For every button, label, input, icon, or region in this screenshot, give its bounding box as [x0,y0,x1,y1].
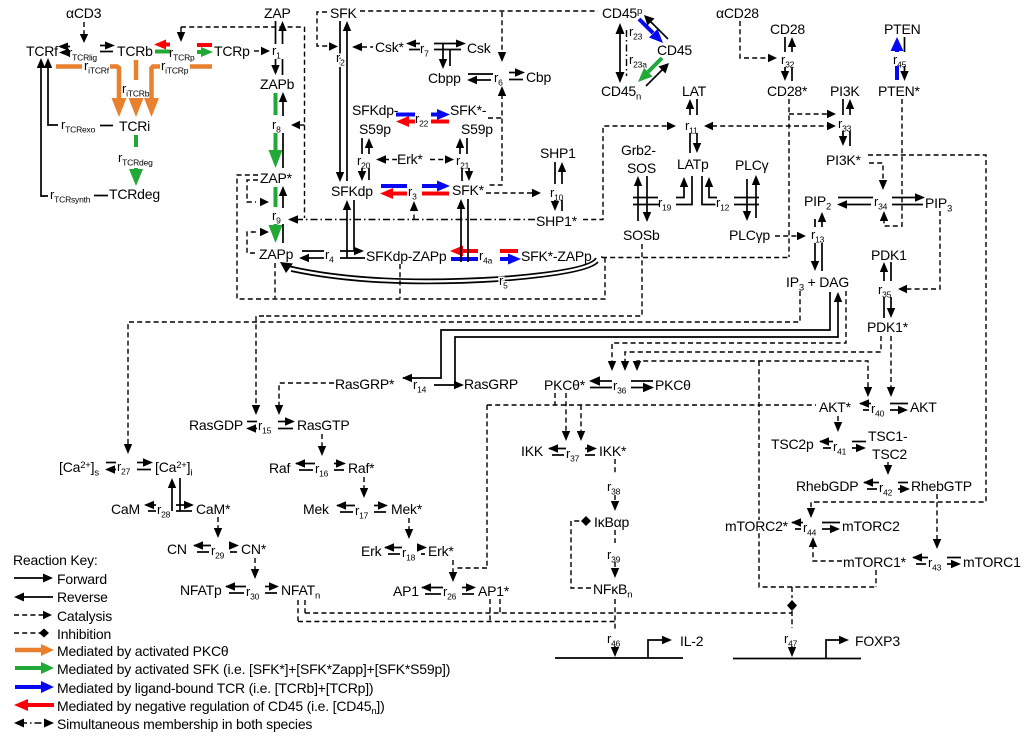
FOXP3 transcription arrow [826,640,841,658]
blue arrow r3 right [422,184,437,188]
wire r29-CN* [230,545,231,547]
wire r21-SFK* pair [461,168,463,181]
legend inhibition arrow [14,632,44,634]
wire r19 horizontals [633,197,658,199]
svg-text:RasGTP: RasGTP [297,417,349,433]
wire r2 pair SFK-SFKdp [339,21,341,174]
wire r17-Mek* [374,505,380,507]
wire SFK* down pair [460,206,462,262]
svg-text:SFK*: SFK* [452,182,485,198]
wire mTORC1 bus branch down to mTORC1* loop [759,361,876,587]
wire mTORC1*-r43 [913,557,928,559]
red arrow r22 left [407,120,415,124]
orange riTCRp elbow down arrow [152,67,161,101]
wire r35-PDK1* pair [883,297,885,318]
svg-text:Simultaneous membership in bot: Simultaneous membership in both species [57,716,312,732]
svg-text:SHP1*: SHP1* [536,213,578,229]
wire r13-IP3DAG pair [814,243,816,263]
wire PDK1-r35 pair [883,269,885,281]
wire rTCRsynth to TCRdeg [94,195,108,197]
wire r1-ZAPb pair [275,59,277,68]
wire mTORC2*-r44 [792,522,803,524]
IL-2 transcription arrow [648,640,664,658]
svg-text:ZAP: ZAP [264,5,291,21]
wire PKCtheta* stub to bus [554,393,556,405]
blue arrow CD45p to CD45 [639,19,653,33]
svg-text:Mek*: Mek* [391,501,423,517]
wire SHP1* bus left to r9 [296,219,535,221]
orange riTCRf line left [56,64,82,69]
wire IP3 to Ca release line [128,291,800,446]
svg-text:CD28*: CD28* [767,83,808,99]
wire r6-Cbp [509,72,518,74]
svg-text:RhebGDP: RhebGDP [796,478,858,494]
wire TCRf-rTCRlig reverse [62,46,70,48]
green arrow CD45 to CD45n [648,58,662,72]
svg-text:Raf*: Raf* [348,460,375,476]
wire PKCtheta* join into r26 line [455,567,487,569]
wire SHP1* to r11 elbow [583,126,667,220]
wire PIP2-r13 pair [814,219,816,227]
legend catalysis arrow [14,614,44,616]
r5 arc pair [288,258,596,279]
svg-text:mTORC2: mTORC2 [842,518,900,534]
wire SFK self bracket [317,12,330,46]
wire arrow down into r44 from PI3K line [811,502,819,510]
wire r45-PTEN* arrow [904,66,906,74]
svg-text:PDK1: PDK1 [871,247,907,263]
wire RasGRP* catalysis to r15 [279,383,334,407]
wire r9-ZAPp black line [282,224,284,243]
orange riTCRp line right [190,64,212,69]
wire Erk* to r21 catalysis [430,159,446,161]
red line r22 right [431,120,449,124]
wire arrow down into rTCRp [180,27,182,34]
wire PKCtheta*/AKT* bus [487,404,816,406]
wire NFkBn inhibition loop to IkBap [571,521,591,588]
svg-text:Raf: Raf [269,460,290,476]
wire r39 arrow to NFkBn [614,562,616,570]
svg-text:SFK: SFK [330,5,357,21]
wire PTEN-r45 right line [904,37,906,52]
svg-text:PDK1*: PDK1* [867,319,909,335]
orange riTCRb arrow to TCRi [134,99,139,101]
green r8 arrow to ZAP* [274,133,278,152]
svg-text:TCRp: TCRp [214,43,250,59]
wire AP1-r26 [422,587,443,589]
wire r11-LATp pair [689,133,691,153]
svg-text:SFKdp: SFKdp [331,183,373,199]
wire top horizontal to rTCRp [181,26,305,28]
svg-text:CN: CN [167,541,187,557]
wire TCRsynth elbow [41,192,48,196]
svg-text:SFKdp-: SFKdp- [352,102,399,118]
svg-text:FOXP3: FOXP3 [855,633,900,649]
svg-text:PKCθ: PKCθ [655,377,691,393]
wire PI3K* right long line to r44 [819,155,986,502]
svg-text:AKT: AKT [910,399,937,415]
svg-text:PI3K: PI3K [830,83,860,99]
wire PIP3 to r35 catalysis [906,211,940,289]
wire Csk*-r7 reverse [414,43,420,45]
svg-text:TCRb: TCRb [117,43,153,59]
legend dashdot double arrow simultaneous [20,722,48,724]
wire r36-PKCtheta lines [631,380,653,382]
wire r12 horizontals [734,197,759,199]
wire r33-PI3K* pair [842,131,844,138]
red line right of rTCRp [197,43,212,47]
svg-text:CN*: CN* [241,541,267,557]
legend orange arrow PKCtheta [15,648,42,653]
svg-text:RasGDP: RasGDP [189,417,243,433]
svg-text:TCRdeg: TCRdeg [109,186,160,202]
svg-text:ZAPp: ZAPp [259,246,294,262]
IL-2 gene line [555,657,683,659]
svg-text:PLCγp: PLCγp [729,227,770,243]
wire inhibition diamond to r47 [791,587,793,598]
wire IKK* to r38 [614,459,616,475]
wire SHP1* vertical up to rTCRp line [304,27,306,218]
wire NFkBn stub down to r46 [614,599,616,629]
svg-text:Mek: Mek [303,501,330,517]
svg-text:Cbpp: Cbpp [428,70,461,86]
svg-text:SOSb: SOSb [623,227,660,243]
wire ZAPp catalysis bracket lower [247,232,256,253]
wire TCRexo vertical with up arrow to TCRf [47,64,49,122]
wire ZAP-r1 pair [275,21,277,44]
wire Raf* to r17 [363,477,365,490]
wire RasGDP-r15 [247,421,257,423]
wire DAG stub to r36 catalysis [612,291,846,363]
svg-text:SHP1: SHP1 [540,145,576,161]
wire mTORC1 bus to r36 and r40 [637,361,868,389]
svg-text:TCRf: TCRf [26,43,58,59]
wire RhebGDP-r42 [864,482,879,484]
wire CaM* to r29 [217,517,219,530]
legend green arrow SFK [15,666,42,670]
svg-text:AP1*: AP1* [478,583,510,599]
wire Erk* to r26 catalysis [452,560,454,574]
green rTCRdeg segment [134,135,138,147]
wire DAG solid pair to RasGRP right [455,299,838,385]
LEGEND [13,552,450,732]
wire r11-r33 long catalysis line [712,125,828,127]
green line under red (rTCRp) [155,50,170,54]
wire SFK*-ZAPp dashes to CD28* vertical [602,257,789,259]
wire r8 up arrow to ZAPb [282,99,284,116]
svg-text:mTORC2*: mTORC2* [725,518,789,534]
blue bar r45 lower [895,66,899,80]
wire IKK-r37 [549,448,566,450]
svg-text:Erk*: Erk* [428,543,454,559]
blue line r22 left [396,113,415,117]
wire r16-Raf* [334,463,338,465]
wire SHP1* bus branch up to r3 [413,209,415,220]
wire r7-Csk forward [434,43,459,45]
r14 reverse arrowhead [402,374,412,382]
svg-text:mTORC1: mTORC1 [963,554,1021,570]
wire TCRexo elbow [48,122,58,125]
wire r9 up arrow to ZAP* [282,193,284,208]
wire CD28* branch to r33 upper [789,113,828,115]
wire r14 forward arrow into RasGRP [434,384,456,386]
wire SFK*-S59p link to r6 line [488,117,502,119]
blue line r4a left [451,257,478,261]
svg-text:LAT: LAT [682,83,707,99]
wire SFKdpZAPp stub to box bottom [399,264,401,298]
wire NFATn stubs to buses [297,600,299,621]
wire CN* to r30 [254,558,256,571]
svg-text:SFK*-ZAPp: SFK*-ZAPp [521,248,592,264]
svg-text:SFK*-: SFK*- [450,102,487,118]
wire CD45p-CD45n solid double arrow [619,30,621,76]
wire ZAP* catalysis bracket upper [247,180,258,202]
wire PIP2-r34 lines [838,197,873,199]
svg-text:Forward: Forward [57,571,107,587]
svg-text:SFKdp-ZAPp: SFKdp-ZAPp [366,248,447,264]
wire r10-SHP1* pair [554,200,556,204]
svg-text:CaM: CaM [111,501,140,517]
wire PI3K* short elbow to r34 [869,163,883,182]
wire SHP1-r10 pair [554,162,556,184]
wire IkBap to r39 [614,530,616,543]
complex dashed box [237,175,605,299]
wire gene bus upper [305,612,792,614]
wire Mek* to r18 [408,518,410,531]
wire S59p-r20 pair [361,138,363,154]
svg-text:CD28: CD28 [770,21,805,37]
svg-text:Catalysis: Catalysis [57,608,112,624]
svg-text:S59p: S59p [359,121,391,137]
wire r27-Cai [137,462,145,464]
svg-text:Inhibition: Inhibition [57,626,111,642]
wire CD28-r32 pair [784,37,786,52]
wire Raf-r16 [296,463,315,465]
svg-text:NFATp: NFATp [180,582,222,598]
orange riTCRf elbow down arrow to TCRi [110,67,119,101]
svg-text:Mediated by activated SFK (i.e: Mediated by activated SFK (i.e. [SFK*]+[… [57,661,450,677]
wire Cai-CaM* vertical pair [171,485,173,511]
svg-text:LATp: LATp [677,156,709,172]
svg-text:S59p: S59p [461,121,493,137]
green rTCRdeg arrow to TCRdeg [134,168,138,172]
svg-text:Erk*: Erk* [397,151,423,167]
svg-text:PI3K*: PI3K* [826,152,862,168]
svg-text:Mediated by ligand-bound TCR (: Mediated by ligand-bound TCR (i.e. [TCRb… [57,680,373,696]
r5 arrowhead into ZAPp [280,262,293,273]
wire r12 L-pair up to LATp [702,176,717,205]
wire r32-CD28* pair [784,67,786,74]
wire RasGTP to r16 [321,434,323,448]
wire SOSb line corner down to r15 [256,316,264,407]
wire r4-SFKdpZAPp forward [340,250,357,252]
wire TCRsynth vertical with up arrow to TCRf [40,64,42,192]
wire CD28* vertical down [788,99,790,257]
wire SFKdp down pair to r4 junction [346,207,348,258]
svg-text:PTEN*: PTEN* [878,83,921,99]
wire SOS-SOSb vertical pair [637,183,639,221]
svg-text:AKT*: AKT* [819,399,852,415]
svg-text:Reverse: Reverse [57,589,108,605]
wire Cas-r27 [106,462,116,464]
wire ZAPp-r4 lines [302,250,324,252]
blue arrow r45 up to PTEN [895,48,899,52]
wire TCRp to r1 catalysis [254,50,262,52]
svg-text:SOS: SOS [627,160,656,176]
wire PI3K-r33 pair [842,99,844,115]
green ZAPb-r8 bar [274,93,278,115]
svg-text:AP1: AP1 [393,583,419,599]
svg-text:PKCθ*: PKCθ* [544,377,586,393]
wire S59p-r21 pair [459,145,461,154]
wire branch arrow into r8 [299,124,305,126]
wire PKCtheta* direct to r37 [565,393,567,433]
red line r4a right [500,249,518,253]
legend reverse arrow [22,596,53,598]
svg-text:RhebGTP: RhebGTP [911,478,972,494]
wire r15-RasGTP [278,421,287,423]
wire r8-ZAP* black line [282,133,284,168]
green ZAP*-r9 bar [274,187,278,207]
svg-text:TCRi: TCRi [119,118,150,134]
svg-text:CD45: CD45 [657,42,692,58]
wire rTCRexo to TCRi [100,125,113,127]
wire AKT*-r40 [860,403,871,405]
wire gene bus lower [298,621,615,623]
wire r42-RhebGTP [898,482,908,484]
blue arrow r22 right [431,113,438,117]
wire PLCgp to r13 [775,235,798,237]
green arrow into TCRp [197,50,203,54]
wire PTEN* down to r34 bottom [884,99,902,226]
wire r41-TSC1TSC2 [852,441,866,443]
green r9 arrow to ZAPp [274,224,278,228]
svg-text:PTEN: PTEN [884,21,921,37]
wire TSC2p-r41 [820,441,833,443]
wire AKT* to r41 catalysis [837,416,839,424]
legend forward arrow [14,577,46,579]
wire aCD28 to r32 [740,21,769,58]
wire r47 arrow to FOXP3 gene [791,646,793,649]
svg-text:CD45p: CD45p [602,5,642,21]
svg-text:Grb2-: Grb2- [621,142,656,158]
wire bus left branch down to r26 join [486,405,488,568]
wire rTCRlig-TCRb forward [100,45,111,47]
wire r26-AP1* [462,587,468,589]
svg-text:Reaction Key:: Reaction Key: [13,552,98,568]
svg-text:mTORC1*: mTORC1* [843,554,907,570]
wire r34-PIP3 lines [892,197,916,199]
svg-text:TSC2p: TSC2p [771,436,814,452]
red arrow r3 left [392,192,407,196]
wire RhebGTP to r43 catalysis [936,494,938,541]
wire r20-SFKdp pair [361,168,363,174]
wire DAG solid pair to r14 left [403,292,830,378]
svg-text:αCD3: αCD3 [66,5,102,21]
wire Csk* catalysis into r2 [362,46,373,48]
wire SFK to CD45p dashed [360,10,598,12]
wire AP1* stubs to buses [489,599,491,621]
wire Mek-r17 [337,505,355,507]
svg-text:Erk: Erk [361,543,383,559]
wire r18-Erk* [419,547,421,549]
svg-text:CaM*: CaM* [196,501,231,517]
wire r44-mTORC2 [822,522,840,524]
svg-text:RasGRP: RasGRP [464,376,518,392]
wire ZAPp stub to box bottom [274,263,276,298]
wire r40-AKT [890,403,908,405]
wire r28-CaM* [176,504,186,506]
wire r30-NFATn [265,586,271,588]
wire SOSb stub down [264,244,642,316]
wire PDK1* to r36 catalysis [625,336,881,363]
wire PDK1* to r40 catalysis [890,336,892,389]
wire SFK* to r10 catalysis [486,192,533,194]
svg-text:IKK*: IKK* [599,443,627,459]
svg-text:IL-2: IL-2 [680,633,704,649]
wire catalysis into r6 from top (SFK-CD45p line) [501,12,503,54]
wire r43-mTORC1 [947,557,961,559]
blue line r3 left [381,184,407,188]
wire CD45p-CD45n dashdot [626,30,628,76]
wire LAT-r11 pair [689,106,691,115]
wire r38 arrow to IkBap [614,495,616,503]
svg-text:PLCγ: PLCγ [735,157,769,173]
orange riTCRb segment from TCRb [134,60,139,80]
svg-text:IκBαp: IκBαp [594,514,630,530]
wire PKCtheta*-r36 lines [598,380,612,382]
wire Erk* to r20 catalysis [384,159,397,161]
svg-text:TSC2: TSC2 [872,446,907,462]
svg-text:ZAP*: ZAP* [260,170,293,186]
wire NFATp-r30 [226,586,246,588]
wire r37-IKK* [585,448,589,450]
black arrow CD45 to CD45p [649,20,668,39]
legend blue arrow TCR [15,685,42,689]
red arrow r4a left [462,249,478,253]
wire bus branch down to IKK* [580,405,582,433]
svg-text:Mediated by activated PKCθ: Mediated by activated PKCθ [57,643,229,659]
svg-text:IKK: IKK [521,443,544,459]
svg-text:ZAPb: ZAPb [260,76,295,92]
wire r46 arrow to IL2 gene [614,646,616,649]
svg-text:αCD28: αCD28 [716,5,759,21]
blue arrow r4a right [500,257,508,261]
wire CaM-r28 [147,504,156,506]
wire mTORC1* to r44 catalysis [813,545,842,561]
FOXP3 gene line [733,658,861,660]
svg-text:Csk: Csk [467,40,492,56]
svg-text:Cbp: Cbp [526,69,551,85]
wire PLCg-PLCgp vertical pair [746,179,748,214]
wire r19 L-pair up to LATp [676,184,684,198]
wire CN-r29 [194,545,211,547]
svg-text:Csk*: Csk* [375,39,405,55]
wire Cbpp-r6 [468,73,493,75]
black arrow CD45n to CD45 [646,68,664,86]
svg-text:TSC1-: TSC1- [868,428,908,444]
legend red arrow CD45 [27,703,54,707]
svg-text:RasGRP*: RasGRP* [335,376,395,392]
red line r3 right [422,192,449,196]
wire aCD3 to TCRb catalysis [83,22,85,36]
wire catalysis into r6 from below (SFK*) [488,94,502,185]
wire mTORC1* stub up [875,570,877,587]
wire TSC1TSC2 to r42 catalysis [887,462,889,467]
red arrow into TCRb (rTCRp reverse) [163,43,170,47]
wire Erk-r18 [385,547,402,549]
wire r7-Cbpp vertical pair [442,44,444,63]
